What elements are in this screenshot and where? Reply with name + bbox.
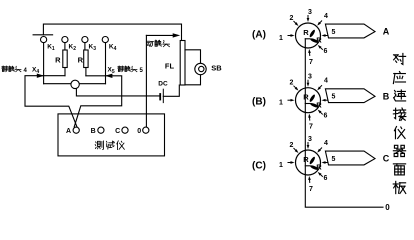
svg-text:R: R [316, 36, 322, 45]
svg-text:R: R [55, 56, 61, 65]
svg-text:4: 4 [324, 78, 328, 85]
svg-text:2: 2 [290, 80, 294, 87]
svg-text:R: R [316, 163, 322, 172]
svg-text:DC: DC [158, 81, 168, 88]
svg-text:0: 0 [137, 128, 141, 135]
svg-text:3: 3 [308, 136, 312, 143]
svg-text:B: B [91, 128, 96, 135]
svg-text:(C): (C) [252, 161, 266, 172]
svg-text:(A): (A) [252, 30, 266, 41]
svg-text:5: 5 [332, 94, 336, 101]
svg-text:1: 1 [279, 100, 283, 107]
svg-text:R: R [303, 155, 309, 164]
svg-text:1: 1 [279, 162, 283, 169]
svg-text:6: 6 [324, 48, 328, 55]
svg-text:SB: SB [211, 64, 222, 73]
svg-text:C: C [383, 154, 390, 164]
svg-text:0: 0 [385, 203, 390, 212]
svg-text:B: B [383, 91, 390, 101]
svg-text:6: 6 [324, 175, 328, 182]
svg-text:C: C [115, 128, 120, 135]
svg-text:5: 5 [332, 156, 336, 163]
svg-text:7: 7 [309, 186, 313, 193]
svg-text:A: A [383, 27, 390, 37]
svg-text:7: 7 [309, 124, 313, 131]
svg-text:3: 3 [308, 9, 312, 16]
svg-text:4: 4 [324, 140, 328, 147]
svg-text:R: R [78, 56, 84, 65]
svg-text:4: 4 [324, 13, 328, 20]
svg-text:R: R [316, 100, 322, 109]
svg-text:7: 7 [309, 59, 313, 66]
svg-text:3: 3 [308, 74, 312, 81]
svg-text:5: 5 [332, 29, 336, 36]
svg-text:(B): (B) [252, 97, 266, 108]
svg-text:FL: FL [165, 62, 175, 71]
svg-text:A: A [66, 128, 71, 135]
svg-text:2: 2 [290, 15, 294, 22]
svg-text:1: 1 [279, 35, 283, 42]
svg-text:6: 6 [324, 113, 328, 120]
svg-text:R: R [303, 28, 309, 37]
svg-text:R: R [303, 93, 309, 102]
svg-text:2: 2 [290, 142, 294, 149]
